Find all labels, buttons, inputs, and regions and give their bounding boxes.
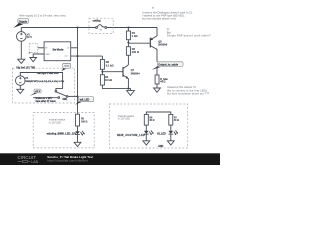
svg-text:Wire supply 10.0 to 14 volts,: Wire supply 10.0 to 14 volts, very noisy (19, 14, 66, 18)
svg-text:PWM(RPWT(0,4,8,10),1%,0.1%) 0.: PWM(RPWT(0,4,8,10),1%,0.1%) 0.78k (25, 80, 65, 83)
dashed input square annotation (28, 44, 38, 55)
wire square to SwMode IN (38, 47, 44, 49)
svg-text:brake on + 12V: brake on + 12V (36, 98, 53, 100)
wire SwMode GND pin (33, 54, 44, 58)
wire R4 to ground run (102, 85, 130, 91)
svg-text:Tl: Tl (152, 6, 155, 10)
wire R6 to LED (145, 125, 147, 131)
svg-text:but then simulation drops out: but then simulation drops out ??? (167, 92, 210, 96)
wire top connect branches (146, 112, 171, 114)
svg-text:SW1: SW1 (62, 99, 68, 101)
wire V5 bottom (19, 85, 21, 89)
wire vertical bus (77, 28, 79, 115)
dashed box S2 (89, 18, 113, 33)
resistor R3 (100, 60, 113, 70)
svg-text:Output_to_cable: Output_to_cable (158, 63, 178, 66)
wire SW1 pole to bus (68, 95, 78, 97)
wire R3 to R4 (101, 69, 103, 74)
svg-text:out: out (64, 55, 67, 58)
svg-text:40 Ω: 40 Ω (160, 81, 165, 84)
svg-text:10 kΩ: 10 kΩ (105, 78, 112, 82)
svg-text:GND: GND (45, 54, 50, 56)
svg-text:2N3904: 2N3904 (131, 72, 141, 76)
switch S2 (96, 25, 107, 32)
wire R2 to Q7 collector (127, 55, 129, 65)
wire LED D2 to ground (145, 134, 147, 141)
resistor R2 (126, 47, 139, 56)
node junction rail/R1 (127, 26, 129, 28)
node junction SW1/bus (76, 95, 78, 97)
svg-text:existing_BMW_LED_12V: existing_BMW_LED_12V (47, 133, 77, 136)
net flag +12V (30, 89, 42, 96)
svg-text:http://circuitlab.com/c/bu8erj: http://circuitlab.com/c/bu8erj (47, 159, 88, 163)
wire rail left segment (21, 27, 95, 29)
wire V1 top to rail (20, 28, 22, 32)
svg-text:1 kΩ: 1 kΩ (132, 34, 138, 38)
transistor Q7 (123, 65, 140, 89)
wire V1 bottom (20, 41, 22, 59)
LED D1 (75, 131, 85, 136)
ground under LED D2 (143, 141, 150, 145)
svg-text:+12 V: +12 V (35, 91, 41, 93)
ground under V1 (18, 59, 25, 63)
net flag tail_LED (75, 97, 94, 105)
voltage source V1 (17, 32, 33, 42)
ground for Q7 (127, 91, 135, 96)
svg-text:LAB: LAB (31, 160, 38, 164)
node junction emitter/ground run (127, 88, 129, 90)
svg-text:Sw Mode: Sw Mode (53, 48, 64, 51)
svg-text:2N3906: 2N3906 (158, 43, 168, 47)
wire rail right segment (107, 27, 158, 29)
ground under LED D3 (167, 141, 174, 145)
ground under R_fake (154, 88, 161, 92)
resistor R6 (144, 114, 154, 125)
svg-text:V2_LED: V2_LED (157, 134, 166, 136)
svg-text:100 Ω: 100 Ω (132, 50, 139, 54)
wire R7 to LED (170, 125, 172, 131)
svg-text:in 12V LED: in 12V LED (49, 121, 61, 124)
svg-text:40 Ω: 40 Ω (149, 119, 154, 122)
ground under LED D1 (74, 142, 81, 146)
wire bus to SwMode top-right pin (71, 47, 78, 49)
svg-text:V5: V5 (25, 76, 29, 80)
LED D2 (144, 130, 154, 135)
wire SwMode out pin (71, 55, 103, 57)
title band Sig Sw1 (16, 65, 36, 69)
callout under SwMode (61, 63, 71, 71)
annotation: resistor note (167, 85, 210, 96)
svg-text:12 V: 12 V (27, 35, 33, 39)
svg-text:Q:: Q: (167, 27, 170, 31)
svg-text:tail_LED: tail_LED (80, 99, 90, 102)
wire flag to SW1 lower throw (33, 97, 58, 99)
resistor R4 (100, 75, 112, 85)
svg-text:here after 27 msec: here after 27 msec (36, 100, 57, 103)
wire R5 to LED (77, 126, 79, 131)
callout Supply (14, 19, 29, 28)
footer bar (0, 153, 220, 165)
ground under SwMode GND (30, 58, 37, 62)
svg-text:Supply: Supply (19, 20, 28, 23)
svg-text:but time domain doesn't end: but time domain doesn't end (142, 16, 176, 20)
svg-text:in 12V LED: in 12V LED (118, 117, 130, 120)
dashed box new custom LED (109, 104, 187, 148)
dashed box existing LED (33, 113, 94, 148)
node junction rail / bus (76, 26, 78, 28)
wire node to Q7 base (102, 71, 122, 73)
node junction R1/R2/base (127, 41, 129, 43)
net flag Output_to_cable (152, 62, 183, 70)
svg-text:Sig Sw1 (S1 TW): Sig Sw1 (S1 TW) (16, 67, 35, 70)
dashed box Sig Sw1 (12, 68, 74, 103)
SwMode module U1 (44, 42, 71, 61)
resistor R5 (76, 114, 88, 126)
footer logo CIRCUIT LAB (18, 155, 39, 164)
svg-text:Instead of this resistor I'd: Instead of this resistor I'd (167, 85, 196, 89)
switch SW1 (55, 90, 68, 101)
svg-text:CIRCUIT: CIRCUIT (18, 155, 37, 160)
node junction out/bus (76, 55, 78, 57)
wire V5 top loop to switch throw (20, 73, 62, 91)
resistor R7 (169, 114, 179, 125)
wire R_fake to ground (156, 84, 158, 88)
svg-text:5.1 kΩ: 5.1 kΩ (106, 64, 114, 68)
node junction base divider (101, 71, 103, 73)
transistor Q8 (PNP) (150, 28, 168, 62)
resistor R_fake (155, 75, 168, 84)
svg-text:100 Ω: 100 Ω (81, 121, 87, 123)
resistor R1 (126, 28, 137, 40)
svg-text:NEW_CUSTOM_LED: NEW_CUSTOM_LED (117, 134, 145, 137)
wire flag to R_fake (156, 66, 158, 75)
wire R1 to R2 (127, 40, 129, 47)
svg-text:GND: GND (158, 146, 163, 148)
wire LED D3 to ground (170, 134, 172, 141)
wire divider feed (101, 56, 103, 59)
svg-text:40 Ω: 40 Ω (174, 119, 179, 122)
svg-text:Simple PNP doesn't work either: Simple PNP doesn't work either? (167, 34, 211, 38)
svg-text:cutting: cutting (93, 20, 102, 23)
annotation: darlington note (142, 6, 211, 38)
LED D3 (169, 130, 179, 135)
voltage source V5 (15, 76, 64, 86)
wire base Q8 (128, 42, 149, 44)
ground under V5 (17, 89, 24, 93)
wire LED to ground (77, 135, 79, 143)
